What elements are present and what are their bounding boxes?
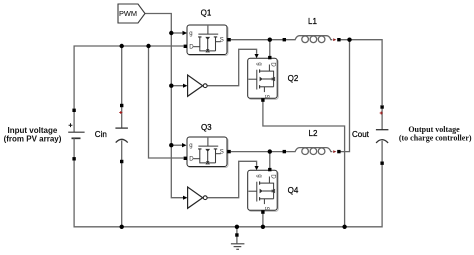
current arrow L1 <box>333 38 336 41</box>
pin: Q3 D port <box>184 157 187 160</box>
pin: Cin bottom port <box>120 160 123 163</box>
pin: Q1 D port <box>184 45 187 48</box>
svg-text:D: D <box>189 44 194 50</box>
svg-text:g: g <box>256 174 262 177</box>
wire: ground bus <box>74 160 382 227</box>
svg-text:g: g <box>256 62 262 65</box>
svg-text:Q1: Q1 <box>201 9 212 18</box>
svg-text:g: g <box>189 31 192 37</box>
wire: input+ bus from source to Q1 drain <box>74 46 183 110</box>
transistor Q3 <box>187 137 228 168</box>
wire: Q3 source to L2 <box>231 151 283 153</box>
pin: Cin top port <box>120 104 123 107</box>
pin: Q3 S port <box>227 150 230 153</box>
node: Q4 drain branch <box>268 149 272 153</box>
svg-text:L2: L2 <box>309 129 318 138</box>
wire: stub to Q1 gate <box>171 32 183 34</box>
capacitor Cin <box>115 107 128 162</box>
pin: Q1 S port <box>227 38 230 41</box>
svg-text:Q4: Q4 <box>288 186 299 195</box>
inverter U2 <box>188 187 208 208</box>
wire: branch down to Q4 drain <box>269 152 271 168</box>
svg-text:S: S <box>220 37 224 43</box>
current arrow L2 <box>333 150 336 153</box>
node: PWM to Q1 g <box>169 31 173 35</box>
inverter U1 <box>188 75 208 96</box>
arrow into U1 <box>183 84 188 88</box>
wire: Cin bottom lead <box>121 163 123 227</box>
inductor L2 <box>284 148 332 155</box>
pin: Q4 D port <box>268 168 271 171</box>
node: Q3 drain branch <box>146 44 150 48</box>
node: Cin bottom <box>120 225 124 229</box>
wire: branch down to Q3 drain <box>149 46 184 158</box>
node: Q2 drain branch <box>268 38 272 42</box>
wire: stub to inverter U1 input <box>171 85 183 87</box>
node: ground tap <box>235 225 239 229</box>
transistor Q2 <box>248 58 279 99</box>
source V1 (PV input) <box>68 112 84 159</box>
svg-text:(from PV array): (from PV array) <box>4 134 62 143</box>
pin: Q4 S port <box>261 210 264 213</box>
node: Q2 source on bus <box>342 225 346 229</box>
svg-text:S: S <box>220 149 224 155</box>
pin: L2 right port <box>337 150 340 153</box>
node: PWM to Q3 g <box>169 143 173 147</box>
pin: source top port <box>72 109 75 112</box>
wire: PWM signal trunk <box>145 14 183 198</box>
node: output after L1 <box>347 38 351 42</box>
wire: Q2 source to ground bus <box>263 102 345 227</box>
arrow into Q1 g <box>183 31 188 35</box>
arrow into Q2 g <box>255 54 259 58</box>
wire: inverter U1 output to Q2 gate <box>207 49 257 85</box>
arrow into U2 <box>183 196 188 200</box>
node: Cin top <box>120 44 124 48</box>
ground symbol <box>231 233 245 249</box>
pin: Cout top port <box>380 105 383 108</box>
node: PWM to U1 <box>169 84 173 88</box>
pin: Cout bottom port <box>380 162 383 165</box>
arrow into Q3 g <box>182 143 187 147</box>
svg-text:D: D <box>189 156 194 162</box>
svg-text:Q3: Q3 <box>201 123 212 132</box>
svg-text:Cout: Cout <box>352 130 370 139</box>
wire: ground stub <box>236 227 238 244</box>
transistor Q1 <box>187 25 228 56</box>
wire: stub to Q3 gate <box>171 144 182 146</box>
pin: Q2 S port <box>261 98 264 101</box>
inductor L1 <box>284 36 332 43</box>
svg-text:S: S <box>263 207 269 211</box>
pin: L1 left port <box>283 38 286 41</box>
pin: L2 left port <box>283 150 286 153</box>
wire: Q1 source to L1 <box>231 39 283 41</box>
svg-text:D: D <box>270 62 276 67</box>
PWM input tag <box>118 4 145 23</box>
pin: L1 right port <box>337 38 340 41</box>
pin: source bottom port <box>72 157 75 160</box>
transistor Q4 <box>248 170 279 211</box>
svg-text:(to charge controller): (to charge controller) <box>399 133 472 142</box>
node: Q4 source on bus <box>261 225 265 229</box>
svg-text:g: g <box>189 143 192 149</box>
svg-text:D: D <box>270 174 276 179</box>
wire: Q4 source down to bus <box>262 214 264 227</box>
capacitor Cout <box>376 109 389 164</box>
svg-text:Q2: Q2 <box>288 74 299 83</box>
svg-text:S: S <box>263 95 269 99</box>
wire: inverter U2 output to Q4 gate <box>207 161 257 197</box>
wire: branch down to Q2 drain <box>269 40 271 56</box>
arrow into Q4 g <box>255 166 259 170</box>
svg-text:Cin: Cin <box>95 130 107 139</box>
svg-text:L1: L1 <box>308 17 317 26</box>
wire: output node down to L2 output <box>341 40 350 152</box>
pin: Q2 D port <box>268 56 271 59</box>
wire: L1 to output node, corner to Cout top <box>341 40 383 105</box>
svg-text:PWM: PWM <box>119 9 137 18</box>
wire: Cin top lead <box>121 46 123 106</box>
